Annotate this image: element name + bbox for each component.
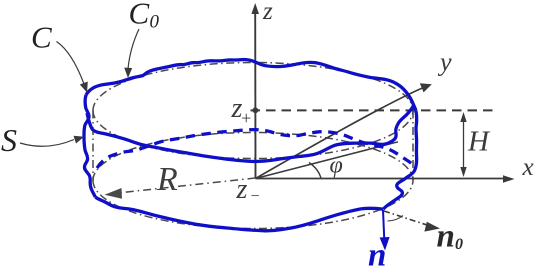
- H double arrow: [463, 116, 465, 173]
- C0 left silhouette: [92, 111, 94, 181]
- n arrow (blue): [383, 210, 384, 240]
- svg-text:C: C: [129, 0, 150, 31]
- BLUE bottom far arc (dashed): [97, 130, 412, 168]
- BLUE top near arc: [87, 106, 414, 162]
- x axis: [256, 178, 508, 180]
- svg-text:n: n: [437, 219, 455, 255]
- phi arc: [309, 163, 321, 179]
- svg-text:0: 0: [455, 236, 463, 253]
- phi ray: [256, 142, 399, 179]
- svg-text:H: H: [467, 126, 491, 158]
- z axis: [254, 12, 256, 179]
- svg-text:C: C: [31, 20, 52, 55]
- svg-text:R: R: [156, 161, 178, 198]
- BLUE right silhouette: [383, 111, 416, 210]
- n0 arrow (dash-dot): [384, 211, 430, 226]
- C0 bottom rim near arc: [93, 181, 413, 229]
- svg-text:φ: φ: [330, 153, 343, 179]
- y axis: [256, 87, 427, 179]
- BLUE left silhouette: [84, 95, 95, 197]
- svg-text:+: +: [240, 108, 252, 128]
- dashed level line z+: [251, 109, 496, 111]
- C0 bottom rim far arc: [93, 133, 413, 181]
- svg-text:z: z: [262, 0, 273, 25]
- svg-text:−: −: [250, 188, 261, 205]
- svg-text:z: z: [236, 174, 248, 205]
- z+ tick point on z axis: [253, 107, 259, 113]
- S pointer arrow: [20, 140, 74, 147]
- BLUE bottom near arc: [95, 197, 383, 231]
- C0 pointer arrow: [128, 29, 139, 69]
- svg-text:n: n: [368, 238, 386, 268]
- C0 top rim near arc: [93, 111, 413, 159]
- svg-text:S: S: [1, 122, 17, 158]
- angle arc n/n0: [388, 216, 404, 222]
- C0 right silhouette: [412, 111, 414, 181]
- R dash-dot line: [110, 178, 256, 194]
- svg-text:x: x: [522, 154, 534, 181]
- BLUE top far arc: [86, 59, 416, 110]
- svg-text:0: 0: [150, 12, 160, 33]
- C pointer arrow: [57, 42, 85, 85]
- svg-text:y: y: [437, 48, 452, 77]
- C0 top rim far arc: [93, 63, 413, 111]
